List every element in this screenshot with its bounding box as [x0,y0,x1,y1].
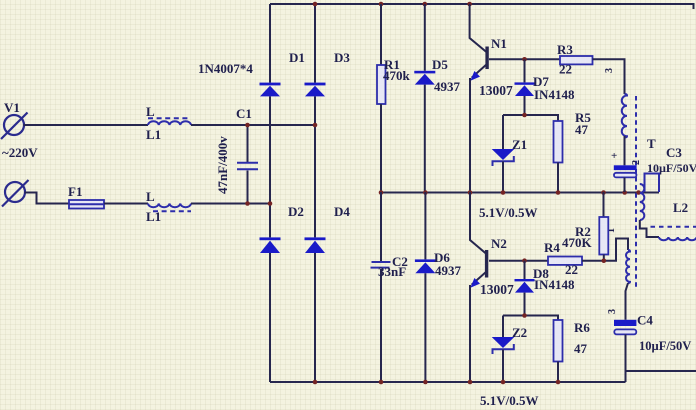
resistor R1 [377,4,411,192]
svg-text:C3: C3 [666,145,682,160]
junction: mid rail / D6 [423,190,428,195]
svg-text:IN4148: IN4148 [534,87,575,102]
junction: bottom AC at D1/D2 [268,201,273,206]
wire: output to right edge [626,370,696,372]
wire: L1 to bridge (top AC) [191,124,315,126]
svg-text:L: L [146,104,155,119]
wire: bottom DC- rail [270,381,626,383]
svg-text:2: 2 [631,160,642,165]
svg-text:Z1: Z1 [512,137,527,152]
capacitor C4 [614,313,691,383]
junction: mid rail / C2 [379,190,384,195]
pin 1 (feedback winding top) [606,228,617,233]
junction: mid rail / R5 [556,190,561,195]
svg-text:IN4148: IN4148 [534,277,575,292]
svg-text:L1: L1 [146,127,161,142]
junction: base wire / D8 [522,258,527,263]
terminal (neutral) [2,180,29,207]
svg-text:1N4007*4: 1N4007*4 [198,61,253,76]
svg-text:470k: 470k [383,68,411,83]
junction: D7 / node [522,113,527,118]
svg-text:T: T [647,136,656,151]
inductor L2 [651,200,696,240]
svg-text:L1: L1 [146,209,161,224]
svg-text:C1: C1 [236,106,252,121]
svg-text:C4: C4 [637,313,653,328]
junction: C1 top [245,123,250,128]
resistor R3 [557,42,593,77]
svg-text:D1: D1 [289,50,305,65]
pin 3 (feedback winding bottom) [607,309,618,314]
junction: mid rail / C3 [622,190,627,195]
label 5.1V/0.5W (Z1) [479,205,538,220]
svg-text:4937: 4937 [434,79,461,94]
svg-text:13007: 13007 [480,282,514,297]
terminal V1 [1,100,38,160]
pin 3 (transformer primary top) [604,68,615,73]
diode D5 [414,4,460,192]
inductor L1 (lower winding) [146,189,191,224]
label 1N4007*4 [198,61,253,76]
wire: N2 base wire [489,260,548,262]
junction: top AC at D3/D4 [313,123,318,128]
resistor R5 [554,110,592,192]
junction: mid rail / R2 [601,190,606,195]
junction: bottom rail / D6 [423,380,428,385]
svg-text:47: 47 [575,122,589,137]
junction: bottom rail / N2 emitter [468,380,473,385]
transformer secondary winding [640,174,659,238]
wire: D8 cathode node (Z2/R6) [503,316,558,321]
wire: F1 to L1 lower [104,203,148,205]
svg-text:L2: L2 [673,200,688,215]
svg-text:F1: F1 [68,184,82,199]
transistor N1 [470,4,513,192]
svg-text:10µF/50V: 10µF/50V [639,339,691,353]
label 5.1V/0.5W (Z2) [480,393,539,408]
svg-text:470K: 470K [562,235,593,250]
resistor R4 [544,240,582,277]
svg-text:13007: 13007 [479,83,513,98]
junction: top rail / R1 [379,2,384,7]
wire: neutral jog to F1 [25,193,70,204]
wire: top DC+ rail [270,4,694,9]
svg-text:22: 22 [565,262,578,277]
svg-text:5.1V/0.5W: 5.1V/0.5W [479,205,538,220]
wire: bridge column D3/D4 [314,4,316,382]
resistor R6 [554,320,591,382]
svg-text:D2: D2 [288,204,304,219]
wire: mid rail (half-bridge midpoint) [381,192,659,194]
wire: D7 cathode node (Z1/R5) [503,115,558,121]
svg-text:22: 22 [559,62,572,77]
capacitor C3 [611,145,696,192]
svg-text:R3: R3 [557,42,573,57]
junction: base wire / D7 [522,57,527,62]
diode D1 [260,50,305,96]
diode D4 [305,204,351,253]
svg-text:D3: D3 [334,50,350,65]
svg-text:D5: D5 [432,57,448,72]
svg-text:47: 47 [574,341,588,356]
svg-text:5.1V/0.5W: 5.1V/0.5W [480,393,539,408]
diode D6 [415,192,462,382]
transformer T primary winding [622,94,656,165]
wire: N1 base wire [489,58,560,60]
svg-text:4937: 4937 [435,263,462,278]
svg-text:+: + [611,150,617,162]
junction: top rail / N1 collector [467,2,472,7]
transformer core [635,96,637,287]
svg-text:R4: R4 [544,240,560,255]
svg-text:3: 3 [604,68,615,73]
svg-text:V1: V1 [4,100,20,115]
svg-text:D4: D4 [334,204,350,219]
transistor N2 [470,192,514,382]
svg-text:Z2: Z2 [512,325,527,340]
capacitor C1 [215,106,258,204]
junction: C1 bottom [245,201,250,206]
pin 2 (primary bottom) [631,160,642,165]
junction: top rail / D5 [423,2,428,7]
svg-text:R6: R6 [574,320,590,335]
junction: bottom rail / R6 [556,380,561,385]
junction: mid rail / secondary return [636,190,641,195]
junction: bottom rail / C2 [379,380,384,385]
wire: live line to L1 [24,124,149,126]
zener Z2 [492,316,527,383]
diode D8 [515,261,575,316]
svg-text:33nF: 33nF [378,264,406,279]
transformer feedback winding [626,250,631,320]
diode D3 [305,50,351,96]
svg-text:N1: N1 [491,36,507,51]
junction: mid rail / N1 emitter [468,190,473,195]
zener Z1 [492,115,527,192]
wire: R3 to transformer pin 3 [593,59,625,94]
inductor L1 (upper winding) [146,104,191,142]
diode D2 [260,204,304,253]
svg-text:47nF/400v: 47nF/400v [215,136,230,194]
wire: L1 to bridge (bottom AC) [191,203,270,205]
wire: left bridge column (D1/D2) [269,4,271,382]
svg-text:~220V: ~220V [2,145,38,160]
fuse F1 [68,184,104,209]
diode D7 [515,59,575,115]
svg-text:N2: N2 [491,236,507,251]
svg-text:3: 3 [607,309,618,314]
capacitor C2 [371,192,408,382]
junction: D8 / node [522,313,527,318]
junction: mid rail / Z1 [501,190,506,195]
junction: bottom rail / D4 [313,380,318,385]
junction: bottom rail / Z2 [501,380,506,385]
junction: top rail / D3 column [313,2,318,7]
svg-text:L: L [146,189,155,204]
wire: R4 to feedback winding [582,239,628,261]
resistor R2 [562,192,608,261]
junction: R2 / R4 node [602,258,607,263]
